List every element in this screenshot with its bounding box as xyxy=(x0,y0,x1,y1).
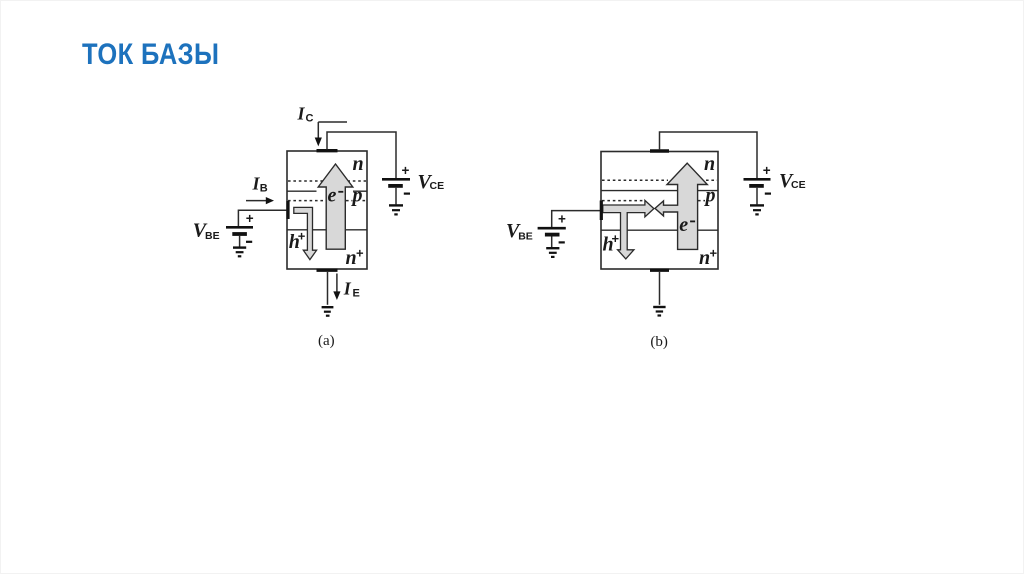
battery V_BE (a) xyxy=(226,226,253,229)
base wire (a) xyxy=(238,210,288,227)
svg-text:+: + xyxy=(710,246,718,261)
emitter wire (a) xyxy=(327,271,329,305)
ground of emitter (a) xyxy=(322,307,334,316)
svg-text:B: B xyxy=(260,183,268,195)
p/n+ junction line (a) xyxy=(287,229,367,231)
svg-text:BE: BE xyxy=(205,230,220,242)
svg-text:+: + xyxy=(298,229,306,244)
minus sign V_CE (a) xyxy=(404,193,410,195)
current I_E arrow xyxy=(336,274,338,293)
depletion edge dotted line (a, upper) xyxy=(288,180,366,182)
battery V_CE (b) xyxy=(744,178,771,181)
slide title xyxy=(82,38,219,72)
svg-text:n: n xyxy=(346,247,357,269)
base contact (a) xyxy=(286,201,289,219)
transistor body box (b) xyxy=(601,152,718,270)
svg-text:e: e xyxy=(328,184,337,206)
svg-text:n: n xyxy=(699,247,710,269)
emitter wire (b) xyxy=(659,271,661,305)
hole flow arrow h+ with recombination branch (b) xyxy=(603,200,654,259)
emitter contact (a) xyxy=(317,269,338,272)
depletion edge dotted line (b, upper) xyxy=(602,179,717,181)
svg-text:C: C xyxy=(306,113,314,125)
svg-text:CE: CE xyxy=(430,180,445,192)
p/n+ junction line (b) xyxy=(601,229,718,231)
svg-text:n: n xyxy=(353,153,364,175)
collector wire (b) xyxy=(660,132,758,179)
ground of V_CE (b) xyxy=(750,205,764,214)
svg-text:n: n xyxy=(704,153,715,175)
base wire (b) xyxy=(552,211,602,227)
svg-text:I: I xyxy=(297,103,306,123)
svg-text:CE: CE xyxy=(791,179,806,191)
svg-text:(b): (b) xyxy=(650,334,668,350)
minus sign V_BE (b) xyxy=(559,241,565,243)
collector contact (b) xyxy=(650,149,669,152)
svg-text:p: p xyxy=(704,185,716,207)
svg-text:BE: BE xyxy=(518,230,533,242)
svg-text:e: e xyxy=(679,214,688,236)
emitter contact (b) xyxy=(650,269,669,272)
svg-text:+: + xyxy=(356,246,364,261)
svg-text:(a): (a) xyxy=(318,333,335,349)
ground of V_BE (a) xyxy=(233,248,246,257)
depletion edge dotted line (a, lower) xyxy=(288,200,367,202)
battery V_BE (b) xyxy=(538,227,566,230)
svg-text:+: + xyxy=(246,211,254,226)
svg-text:+: + xyxy=(558,212,566,227)
battery V_CE (a) xyxy=(382,178,410,181)
svg-text:+: + xyxy=(402,163,410,178)
minus sign V_CE (b) xyxy=(765,193,771,195)
transistor body box (a) xyxy=(287,151,367,269)
n/p junction line (a) xyxy=(287,190,367,192)
svg-text:+: + xyxy=(612,231,620,246)
collector wire (a) xyxy=(327,132,396,179)
n/p junction line (b) xyxy=(601,190,718,192)
depletion edge dotted line (b, lower) xyxy=(602,200,705,202)
svg-text:p: p xyxy=(351,185,363,207)
svg-text:I: I xyxy=(343,279,352,299)
svg-text:+: + xyxy=(763,163,771,178)
minus sign V_BE (a) xyxy=(246,241,252,243)
ground of V_BE (b) xyxy=(546,248,559,257)
hole flow arrow h+ (a) xyxy=(294,207,317,259)
current I_B arrow xyxy=(246,200,267,202)
collector contact (a) xyxy=(317,149,338,152)
svg-text:E: E xyxy=(353,288,360,300)
ground of V_CE (a) xyxy=(389,205,403,214)
ground of emitter (b) xyxy=(653,307,665,316)
base contact (b) xyxy=(600,201,603,221)
electron flow arrow e- (a) xyxy=(318,164,353,249)
electron flow arrow e- with recombination branch (b) xyxy=(655,163,707,249)
current I_C arrow xyxy=(318,121,347,123)
